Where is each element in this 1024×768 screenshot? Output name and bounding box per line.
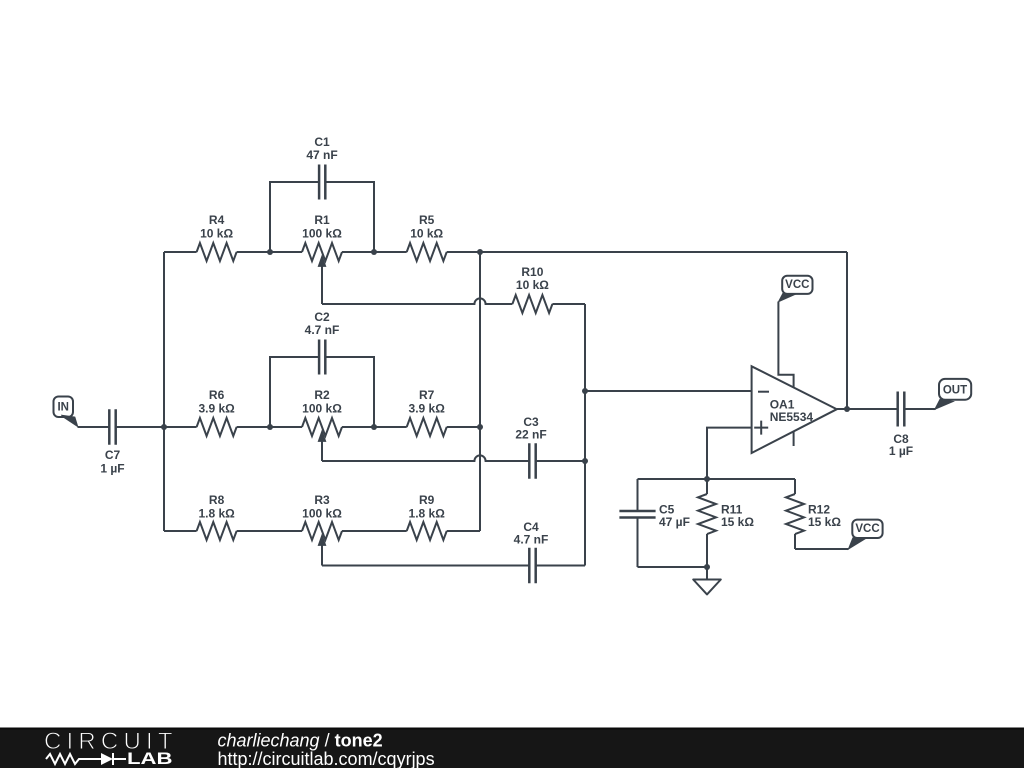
resistor R12 (786, 479, 849, 549)
wire R10 to mid rail (552, 303, 585, 305)
svg-text:4.7 nF: 4.7 nF (305, 323, 340, 337)
svg-text:VCC: VCC (855, 523, 879, 535)
svg-text:100 kΩ: 100 kΩ (302, 402, 342, 416)
svg-text:R10: R10 (521, 265, 543, 279)
svg-text:C1: C1 (314, 135, 330, 149)
wire row3 horizontal (164, 530, 480, 532)
svg-text:R8: R8 (209, 493, 225, 507)
svg-text:47 nF: 47 nF (306, 148, 337, 162)
potentiometer R3 (302, 493, 342, 566)
wire bottom rail C5 (638, 566, 708, 568)
svg-text:http://circuitlab.com/cqyrjps: http://circuitlab.com/cqyrjps (218, 749, 435, 768)
capacitor C5 (619, 479, 690, 567)
svg-text:charliechang / tone2: charliechang / tone2 (218, 731, 383, 751)
wire R3 wiper through C4 (322, 565, 585, 567)
wire left rail (163, 252, 165, 531)
svg-text:1.8 kΩ: 1.8 kΩ (409, 507, 446, 521)
ground (693, 567, 721, 594)
svg-text:R9: R9 (419, 493, 435, 507)
svg-text:100 kΩ: 100 kΩ (302, 227, 342, 241)
svg-text:100 kΩ: 100 kΩ (302, 507, 342, 521)
svg-text:VCC: VCC (785, 279, 809, 291)
resistor R4 (197, 243, 237, 261)
svg-text:R4: R4 (209, 213, 225, 227)
svg-text:NE5534: NE5534 (770, 410, 814, 424)
svg-text:R7: R7 (419, 388, 435, 402)
svg-text:R1: R1 (314, 213, 330, 227)
svg-text:C7: C7 (105, 448, 121, 462)
flag OUT (934, 379, 971, 410)
svg-text:3.9 kΩ: 3.9 kΩ (198, 402, 235, 416)
capacitor C8 (889, 392, 913, 459)
wire op-amp minus input (585, 390, 752, 392)
svg-text:R2: R2 (314, 388, 330, 402)
wire mid rail (584, 304, 586, 566)
svg-text:4.7 nF: 4.7 nF (514, 533, 549, 547)
resistor R10 (512, 295, 552, 313)
svg-text:10 kΩ: 10 kΩ (200, 227, 233, 241)
resistor R11 (698, 479, 754, 567)
svg-text:10 kΩ: 10 kΩ (516, 278, 549, 292)
svg-text:IN: IN (57, 401, 69, 413)
svg-text:1 µF: 1 µF (100, 462, 124, 476)
svg-text:R3: R3 (314, 493, 330, 507)
svg-text:R6: R6 (209, 388, 225, 402)
svg-text:1.8 kΩ: 1.8 kΩ (198, 507, 235, 521)
svg-text:15 kΩ: 15 kΩ (808, 515, 841, 529)
capacitor C4 (514, 520, 549, 583)
wire R2 wiper through C3, hop over right rail (322, 455, 585, 461)
wire output (837, 408, 936, 410)
potentiometer R2 (302, 388, 342, 461)
flag VCC op-amp (777, 276, 812, 303)
wire row1 horizontal (164, 251, 847, 253)
wire feedback rail (846, 252, 848, 409)
capacitor C7 (78, 409, 165, 475)
capacitor C2 (270, 310, 374, 427)
wire right rail (479, 252, 481, 531)
potentiometer R1 (302, 213, 342, 304)
footer bar (0, 728, 1024, 768)
wire op-amp plus input (707, 428, 752, 479)
svg-text:3.9 kΩ: 3.9 kΩ (409, 402, 446, 416)
svg-text:OUT: OUT (943, 384, 967, 396)
svg-text:LAB: LAB (127, 749, 173, 768)
svg-text:10 kΩ: 10 kΩ (410, 227, 443, 241)
svg-text:15 kΩ: 15 kΩ (721, 515, 754, 529)
svg-text:22 nF: 22 nF (515, 428, 546, 442)
op-amp U1 (752, 302, 837, 454)
capacitor C3 (515, 415, 546, 479)
flag IN (54, 397, 79, 428)
flag VCC R12 (847, 520, 882, 551)
node dots (161, 249, 850, 570)
capacitor C1 (270, 135, 374, 252)
wire row2 horizontal (164, 426, 480, 428)
svg-text:1 µF: 1 µF (889, 444, 913, 458)
wire R1 wiper to R10, hop over right rail (322, 298, 512, 304)
resistor R5 (407, 243, 447, 261)
resistor R6 (197, 418, 237, 436)
footer logo resistor-diode symbol (46, 753, 126, 765)
resistor R8 (197, 522, 237, 540)
resistor R7 (407, 418, 447, 436)
svg-text:R5: R5 (419, 213, 435, 227)
svg-text:47 µF: 47 µF (659, 515, 690, 529)
wire top rail C5/R11/R12 (638, 478, 796, 480)
resistor R9 (407, 522, 447, 540)
svg-text:C2: C2 (314, 310, 330, 324)
